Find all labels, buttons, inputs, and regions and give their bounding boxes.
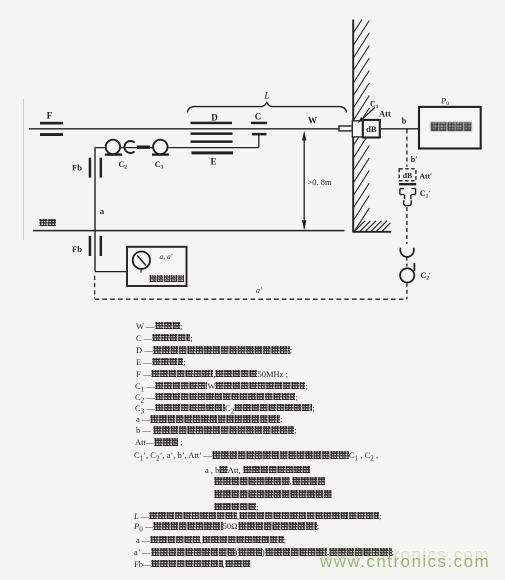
svg-text:>0. 8m: >0. 8m <box>308 177 333 187</box>
connector C2 circle <box>106 140 120 154</box>
legend line 1 <box>136 322 182 331</box>
plug at wall <box>339 126 352 131</box>
wire W main lead <box>29 128 340 130</box>
ferrite Fb lower bars <box>89 236 92 256</box>
connector arc C' <box>400 248 414 257</box>
dashed wire mid <box>406 207 408 244</box>
svg-text:C2: C2 <box>119 160 128 171</box>
attenuator Att' dashed box <box>399 169 416 181</box>
dashed wire short <box>406 257 408 267</box>
svg-text:b′: b′ <box>411 155 418 164</box>
label 地板 <box>39 219 56 227</box>
legend line 21 <box>134 560 251 569</box>
connector arc <box>124 141 134 153</box>
absorber D bar below wire <box>191 132 233 135</box>
legend line 8 <box>135 404 315 417</box>
dimension brace L <box>188 103 347 113</box>
svg-text:Fb: Fb <box>72 163 82 173</box>
meter tick <box>140 269 142 273</box>
svg-text:C: C <box>255 112 262 122</box>
dashed wire a' vertical left <box>94 276 96 299</box>
arrow C1 <box>360 108 375 122</box>
label 测量接收机 in receiver box <box>149 275 185 282</box>
corner hatching <box>355 221 391 232</box>
svg-text:C2′: C2′ <box>421 271 432 282</box>
legend line 7 <box>135 393 298 406</box>
sleeve E bar <box>192 151 234 154</box>
connector C2 bar <box>105 153 122 155</box>
svg-text:Fb: Fb <box>72 244 82 254</box>
signal generator box <box>419 107 481 149</box>
absorber D bar above wire <box>191 122 233 125</box>
legend line 10 <box>136 426 296 435</box>
connector C2' circle <box>400 268 414 282</box>
legend line 18 <box>134 522 319 535</box>
connector C1' cup <box>404 200 412 205</box>
wire receiver cable horizontal <box>95 147 259 149</box>
label 信号发生器 in generator box <box>430 122 472 131</box>
svg-text:b: b <box>402 116 407 126</box>
transformer C bar below wire <box>252 133 267 136</box>
attenuator Att dB box <box>363 120 380 138</box>
svg-text:dB: dB <box>366 124 377 134</box>
svg-text:C3: C3 <box>155 160 164 171</box>
connector C1' dashed bracket <box>400 189 416 200</box>
svg-text:E: E <box>210 157 216 167</box>
svg-text:D: D <box>211 113 218 123</box>
svg-text:dB: dB <box>403 171 412 180</box>
wall line <box>352 20 354 232</box>
svg-text:Att: Att <box>379 109 391 119</box>
legend line 20 <box>134 548 394 557</box>
legend line 14 <box>214 477 325 486</box>
dashed wire b' <box>406 130 408 167</box>
svg-text:a′: a′ <box>256 286 262 295</box>
watermark <box>320 552 490 572</box>
ground plane line <box>33 230 345 232</box>
legend line 13 <box>205 466 310 475</box>
legend line 12 <box>134 451 378 464</box>
legend line 2 <box>136 334 193 343</box>
svg-text:a, a′: a, a′ <box>160 252 173 261</box>
svg-text:L: L <box>263 92 269 102</box>
svg-text:a: a <box>100 206 105 216</box>
wire to receiver <box>95 271 127 273</box>
diagram SVG <box>0 0 505 335</box>
connector C3 bar <box>152 153 169 155</box>
transformer C bar above wire <box>251 122 267 125</box>
connector C3 circle <box>153 140 167 154</box>
svg-text:W: W <box>308 116 317 126</box>
legend line 19 <box>136 536 286 545</box>
meter needle <box>137 255 146 265</box>
legend line 11 <box>135 438 183 447</box>
legend lines <box>0 0 505 1</box>
svg-text:F: F <box>47 112 53 122</box>
ferrite Fb upper bars <box>89 158 92 178</box>
wire riser to transformer C <box>258 135 260 148</box>
legend line 17 <box>134 512 381 521</box>
connector C1 box at wall <box>352 121 363 137</box>
legend line 3 <box>136 346 292 355</box>
legend line 6 <box>135 382 308 395</box>
connector C2' tangent bar <box>413 263 415 271</box>
dashed wire bottom <box>406 283 408 299</box>
attenuator Att' bottom bar <box>399 183 416 185</box>
meter circle <box>133 252 150 269</box>
svg-text:P0: P0 <box>440 95 449 107</box>
legend line 9 <box>136 415 282 424</box>
ferrite F bar below <box>40 133 63 136</box>
wire b <box>380 128 419 130</box>
wall hatching <box>353 8 369 233</box>
legend line 16 <box>214 503 258 512</box>
connector mid bar <box>137 146 150 149</box>
svg-text:Att′: Att′ <box>420 171 433 180</box>
legend line 15 <box>214 490 332 499</box>
measuring receiver box <box>127 247 187 286</box>
wall floor corner line <box>352 231 391 233</box>
scan artifact faint vertical line <box>23 99 25 240</box>
wire receiver riser vertical <box>94 148 96 272</box>
svg-text:C1′: C1′ <box>420 189 431 200</box>
dimension arrow 0.8m <box>303 134 305 229</box>
absorber D second bar below <box>191 140 233 143</box>
legend line 4 <box>136 358 186 367</box>
ferrite F bar above <box>40 122 63 125</box>
dashed wire a' horizontal <box>95 298 407 300</box>
legend line 5 <box>136 370 288 379</box>
